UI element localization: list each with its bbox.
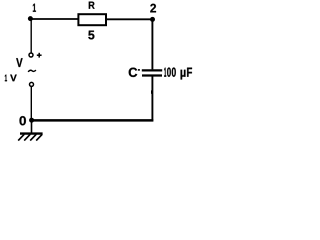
- small nick on right leg wire: [151, 90, 153, 93]
- node 0 junction dot: [29, 118, 34, 123]
- resistor value 5: [88, 31, 94, 40]
- wire top-right: resistor to node 2: [106, 18, 153, 20]
- source V plus terminal circle: [29, 53, 33, 57]
- source value 1 V: [5, 75, 17, 82]
- source label V: [16, 58, 22, 67]
- wire right vertical upper: node 2 down to capacitor: [151, 19, 153, 69]
- capacitor value 100 uF: [164, 67, 192, 79]
- node 1 junction dot: [28, 16, 33, 21]
- AC tilde symbol: [28, 70, 36, 72]
- small tick left of capacitor top plate: [138, 69, 140, 71]
- plus polarity sign: [37, 53, 42, 58]
- node 0 label: [20, 116, 26, 125]
- ground symbol: [18, 120, 42, 141]
- capacitor C plates: [142, 70, 162, 75]
- wire left vertical: node 1 down to source plus terminal: [30, 18, 32, 53]
- wire bottom: node 0 to right leg: [31, 119, 153, 122]
- wire top-left: node 1 to resistor: [30, 18, 78, 20]
- source V minus terminal circle: [30, 82, 34, 86]
- wire left vertical: source to node 0: [30, 87, 32, 121]
- node 2 label: [150, 4, 156, 13]
- resistor label R: [89, 2, 95, 9]
- node 1 label: [33, 4, 36, 12]
- capacitor label C: [129, 68, 138, 77]
- wire right vertical lower: capacitor to bottom wire: [151, 76, 153, 121]
- node 2 junction dot: [150, 17, 155, 22]
- resistor R body: [78, 14, 106, 25]
